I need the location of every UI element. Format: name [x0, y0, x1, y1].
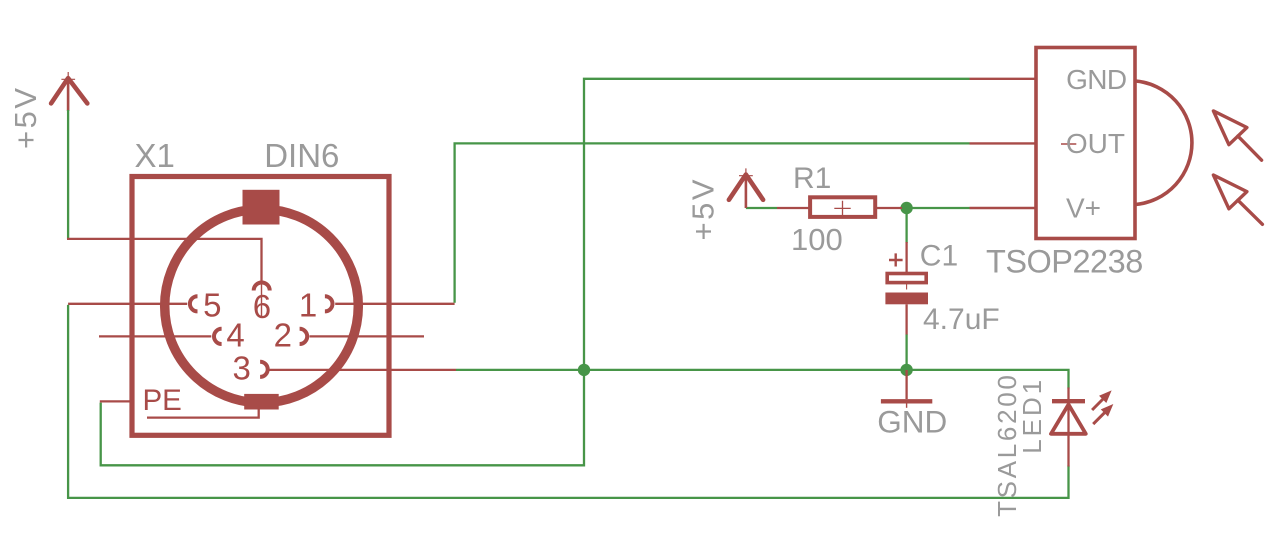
svg-text:+5V: +5V: [686, 177, 721, 241]
svg-text:1: 1: [299, 287, 317, 324]
wire R1 right to TSOP V+: [901, 207, 970, 209]
svg-text:LED1: LED1: [1017, 377, 1047, 454]
TSOP2238 box: [1036, 48, 1135, 239]
svg-text:C1: C1: [920, 239, 958, 272]
pin 3 contact arc: [260, 362, 268, 377]
wire +5V corner to pin 6 (red pin lead): [67, 239, 262, 283]
IR arrow 1 (incoming): [1213, 111, 1261, 160]
svg-text:3: 3: [233, 349, 251, 386]
svg-text:5: 5: [203, 287, 221, 324]
svg-text:TSOP2238: TSOP2238: [986, 244, 1143, 280]
connector X1 box outline: [132, 177, 389, 436]
wire pin1/OUT net: [455, 143, 970, 302]
pin 5 lead: [68, 303, 187, 305]
capacitor C1 positive plate (open): [887, 274, 926, 283]
wire PE/GND net: PE down, right, up, to TSOP GND: [101, 79, 970, 466]
connector X1 circle: [165, 209, 359, 403]
resistor R1 left lead: [777, 207, 810, 209]
junction dot at GND-net / rail crossing: [578, 364, 590, 376]
svg-text:OUT: OUT: [1066, 128, 1125, 159]
PE underline to bottom notch: [147, 409, 259, 418]
TSOP2238 OUT pin lead: [970, 142, 1037, 144]
LED1 lead (red): [1067, 388, 1069, 467]
TSOP2238 dome: [1136, 81, 1192, 205]
LED1 triangle: [1051, 405, 1086, 434]
ground symbol bar: [881, 399, 932, 403]
capacitor C1 bottom lead: [905, 304, 907, 334]
TSOP2238 GND pin lead: [970, 78, 1037, 80]
svg-text:V+: V+: [1066, 192, 1101, 223]
pin 6 contact arc: [254, 283, 270, 291]
pin 5 contact arc: [190, 296, 198, 311]
pin 4 contact arc: [214, 329, 222, 344]
wire +5V to R1 left: [746, 207, 777, 209]
pin 2 contact arc: [300, 329, 308, 344]
ground symbol lead: [905, 370, 907, 399]
power +5V symbol (near R1): [729, 168, 763, 208]
pin 6 lead continuation through digit: [261, 283, 263, 316]
LED1 emit arrow 2: [1093, 405, 1112, 424]
pin 1 contact arc: [325, 296, 333, 311]
wire pin5 net: down, bottom rail, up to LED bottom: [68, 305, 1068, 498]
wire pin3/mid rail net: [456, 370, 1069, 389]
svg-text:2: 2: [274, 317, 292, 354]
resistor R1 body: [810, 197, 875, 217]
resistor R1 right lead: [875, 207, 902, 209]
capacitor C1 negative plate (filled): [885, 293, 928, 305]
junction dot at C1 bottom / GND symbol: [900, 364, 912, 376]
svg-text:GND: GND: [877, 404, 947, 440]
svg-text:6: 6: [253, 288, 271, 325]
svg-text:4: 4: [226, 316, 244, 353]
wire +5V net vertical (green): [67, 110, 69, 239]
TSOP2238 V+ pin lead: [970, 207, 1037, 209]
svg-text:+5V: +5V: [8, 85, 43, 149]
power +5V symbol (left): [51, 72, 87, 111]
LED1 emit arrow 1: [1092, 392, 1110, 411]
IR arrow 2 (incoming): [1213, 175, 1262, 224]
svg-text:DIN6: DIN6: [264, 137, 339, 174]
pin PE lead: [100, 400, 132, 402]
svg-text:GND: GND: [1066, 64, 1126, 95]
svg-text:R1: R1: [793, 162, 831, 195]
ground symbol origin stub: [906, 404, 908, 408]
junction dot at R1 right / C1 top: [900, 202, 912, 214]
capacitor C1 origin cross: [897, 267, 916, 290]
pin 4 lead: [99, 335, 211, 337]
wire junction to C1 top: [905, 208, 907, 243]
resistor R1 origin cross: [834, 201, 850, 216]
LED1 cathode bar: [1052, 399, 1085, 403]
svg-text:100: 100: [791, 222, 843, 257]
connector X1 bottom notch: [244, 394, 279, 410]
svg-text:4.7uF: 4.7uF: [923, 303, 1000, 336]
svg-text:PE: PE: [143, 384, 182, 417]
pin 3 lead: [270, 369, 457, 371]
svg-text:X1: X1: [135, 137, 175, 174]
pin 2 lead: [310, 335, 425, 337]
pin 1 lead: [335, 303, 454, 305]
TSOP2238 OUT pin inner dash: [1061, 143, 1076, 145]
capacitor C1 top lead: [905, 242, 907, 273]
wire C1 bottom to rail: [905, 334, 907, 370]
connector X1 top notch: [243, 190, 280, 225]
capacitor C1 plus sign: [889, 253, 903, 266]
